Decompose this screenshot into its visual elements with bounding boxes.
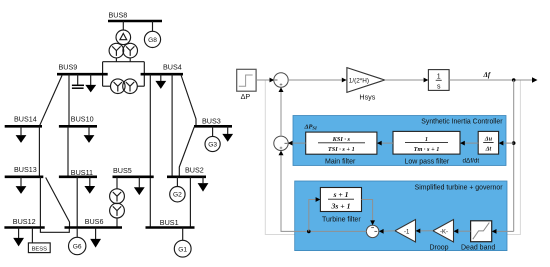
block Step (delta P source) [237, 69, 256, 101]
bus BUS6 bar [65, 217, 123, 228]
wire BUS14 to BUS13 [38, 126, 40, 177]
load on BUS3 [222, 126, 233, 141]
generator G8 [144, 21, 160, 48]
svg-text:-K-: -K- [440, 229, 448, 235]
generator G3 [205, 126, 220, 151]
wire J2 to derivative block [499, 141, 514, 146]
wire BUS12 to BUS6 (U jumper) [40, 228, 69, 233]
wire turbine filter to sum S3 (top input) [362, 200, 376, 226]
wire BUS8 to transformer T834 [122, 21, 124, 30]
block integrator 1/s [428, 70, 449, 91]
svg-text:Synthetic Inertia Controller: Synthetic Inertia Controller [421, 119, 503, 126]
svg-text:BUS8: BUS8 [109, 10, 128, 19]
svg-text:Turbine filter: Turbine filter [322, 217, 361, 224]
capacitor on BUS9 [72, 74, 84, 88]
svg-text:BESS: BESS [32, 246, 48, 252]
svg-text:BUS6: BUS6 [85, 217, 104, 226]
svg-text:s: s [437, 83, 441, 90]
wire BUS13 to BUS6 (diagonal) [46, 178, 70, 227]
svg-text:BUS9: BUS9 [59, 62, 78, 71]
svg-text:BUS1: BUS1 [160, 218, 179, 227]
wire BUS4 to BUS2 [171, 74, 173, 177]
gain Droop (-K-) [430, 220, 454, 252]
load on BUS2 [198, 177, 209, 192]
wire derivative to low pass filter [460, 141, 478, 146]
sum S1 [274, 73, 288, 87]
wire J1 down to J2 and dead band [513, 80, 515, 231]
wire turbine loop to sum S2 (bottom input) [279, 151, 284, 232]
load on BUS13 [16, 177, 27, 194]
wire droop to gain -1 [416, 229, 434, 234]
svg-text:BUS5: BUS5 [113, 166, 132, 175]
box Synthetic Inertia Controller [293, 116, 506, 166]
load on BUS4 [155, 74, 166, 89]
svg-text:G3: G3 [208, 142, 217, 149]
svg-text:BUS10: BUS10 [71, 115, 94, 124]
svg-text:1: 1 [425, 136, 428, 143]
load on BUS12 [13, 228, 24, 247]
wire J3 to turbine filter input [309, 197, 321, 231]
svg-text:G2: G2 [173, 192, 182, 199]
wire integrator to output, label delta-f [449, 71, 537, 83]
generator G2 [170, 177, 185, 202]
svg-text:G1: G1 [178, 246, 187, 253]
svg-text:Low pass filter: Low pass filter [405, 159, 450, 166]
wire BUS13 to BUS12 [39, 177, 41, 228]
bus BUS4 bar [141, 62, 183, 74]
svg-text:Δf: Δf [483, 71, 491, 79]
svg-text:BUS12: BUS12 [13, 217, 36, 226]
svg-text:BUS4: BUS4 [163, 62, 182, 71]
wire sum S3 output to node J3 and sum S2 [281, 230, 367, 232]
svg-text:G8: G8 [148, 37, 157, 44]
wire sum S2 up to sum S1 [279, 87, 284, 136]
transformer T834 (3-winding, delta-wye-wye) [109, 30, 137, 58]
svg-text:Δu: Δu [484, 136, 493, 143]
bus BUS2 bar [167, 165, 206, 177]
wire BUS3 to BUS2 (diagonal) [179, 127, 194, 177]
svg-text:dΔf/dt: dΔf/dt [463, 158, 480, 165]
svg-text:-1: -1 [404, 229, 410, 235]
wire BUS9 to BUS10 [68, 74, 70, 126]
transformer T56 (2-winding wye-wye between BUS5 and BUS6) [110, 177, 125, 228]
wire BUS9 to BUS14 (diagonal) [39, 76, 62, 127]
load on BUS11 [84, 177, 95, 194]
svg-text:G6: G6 [73, 244, 82, 251]
wire BUS10 to BUS11 [67, 126, 69, 177]
wire main filter to sum S2 [288, 141, 306, 146]
battery BESS [28, 228, 50, 253]
svg-text:s + 1: s + 1 [332, 190, 348, 199]
wire Step to sum S1 [256, 78, 274, 83]
svg-text:BUS3: BUS3 [202, 117, 221, 126]
svg-text:Tm · s + 1: Tm · s + 1 [414, 146, 440, 153]
box Simplified turbine + governor [295, 181, 507, 251]
svg-text:BUS11: BUS11 [71, 168, 93, 177]
bus BUS3 bar [194, 117, 232, 127]
bus BUS13 bar [5, 165, 44, 177]
wire Hsys to integrator [385, 78, 429, 83]
wire gain -1 to sum S3 [379, 229, 395, 234]
svg-text:Δt: Δt [485, 146, 492, 153]
gain Hsys (1/(2*H)) [347, 68, 385, 102]
load on BUS14 [16, 126, 27, 143]
transformer T94 (2-winding wye-wye between BUS9 and BUS4) [103, 79, 145, 94]
gain -1 [395, 220, 416, 243]
node J2 (branch to derivative) [512, 141, 516, 145]
svg-text:ΔP: ΔP [241, 92, 251, 101]
wire transformer T834 to BUS9/BUS4 bracket [103, 58, 145, 86]
wire BUS4 to BUS5/BUS1 (long vertical) [149, 74, 151, 227]
svg-text:Hsys: Hsys [359, 92, 375, 101]
load on BUS9 [85, 74, 96, 92]
sum S2 [274, 136, 288, 150]
wire sum S1 to Hsys [288, 78, 346, 83]
load on BUS6 [90, 228, 101, 248]
load on BUS10 [84, 126, 95, 143]
sum S3 [366, 225, 378, 237]
svg-text:BUS13: BUS13 [14, 165, 37, 174]
wire BUS4 to BUS3 (diagonal) [181, 75, 196, 126]
bus BUS8 bar [108, 10, 162, 21]
svg-text:KSI · s: KSI · s [332, 136, 351, 143]
svg-text:TSI · s + 1: TSI · s + 1 [328, 146, 355, 153]
generator G1 [174, 228, 191, 258]
wire BUS11 to BUS6 [76, 177, 78, 228]
svg-text:Droop: Droop [430, 245, 449, 252]
block derivative du/dt [463, 131, 499, 164]
bus BUS9 bar [57, 62, 108, 74]
bus BUS14 bar [5, 115, 42, 127]
bus BUS12 bar [4, 217, 44, 228]
wire BUS2 to BUS1 [189, 177, 191, 228]
svg-text:3s + 1: 3s + 1 [331, 201, 351, 210]
bus BUS10 bar [59, 115, 97, 127]
block Turbine filter [320, 188, 361, 224]
svg-text:Main filter: Main filter [325, 159, 356, 166]
svg-text:BUS14: BUS14 [14, 115, 37, 124]
svg-text:1: 1 [437, 74, 441, 81]
node J1 on delta-f line [512, 78, 516, 82]
block Main filter [306, 132, 377, 165]
wire J2 branch to dead band [492, 229, 514, 234]
block Low pass filter [393, 131, 460, 165]
generator G6 [69, 228, 86, 255]
node J3 (branch to turbine filter) [307, 230, 311, 234]
svg-text:1/(2*H): 1/(2*H) [349, 77, 369, 84]
bus BUS5 bar [113, 166, 154, 177]
load on BUS5 [134, 177, 145, 195]
svg-text:Simplified turbine + governor: Simplified turbine + governor [415, 185, 504, 192]
svg-text:Dead band: Dead band [461, 245, 495, 252]
bus BUS11 bar [59, 168, 97, 177]
wire low pass filter to main filter [377, 141, 393, 146]
svg-text:BUS2: BUS2 [185, 165, 204, 174]
block Dead band [461, 221, 495, 252]
wire dead band to droop gain [454, 229, 471, 234]
faint boundary rectangle of control model [265, 80, 520, 235]
bus BUS1 bar [146, 218, 195, 228]
